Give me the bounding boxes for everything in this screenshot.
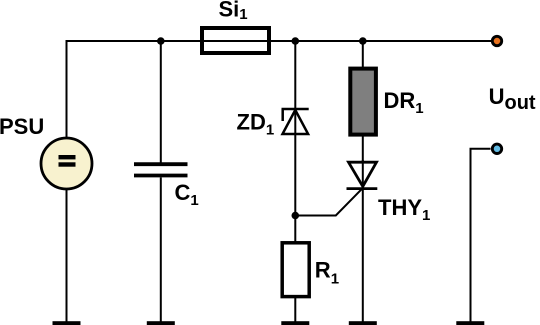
ground symbol under R1 [281,321,309,325]
wire gate node down to R1 [294,215,296,244]
dropper resistor DR1 [350,69,376,135]
wire top rail to DR1 [362,41,364,68]
resistor R1 [282,243,309,297]
gate wire from node to thyristor gate [295,189,362,216]
wire top rail right segment (fuse to output terminal) [271,40,491,42]
wire top rail to capacitor [160,41,162,163]
fuse Si1 [200,28,271,53]
zener diode ZD1 [282,109,309,134]
junction node on top rail above C1 [157,37,165,45]
wire vertical from top rail down to PSU [66,40,68,138]
wire top rail left segment (PSU corner to fuse) [66,40,204,42]
wire DR1 to thyristor [362,135,364,163]
wire R1 bottom to ground [294,296,296,323]
wire capacitor bottom to ground [160,178,162,323]
output terminal positive (orange) [492,36,501,45]
junction node on top rail above ZD1 [292,37,300,45]
PSU source circle [41,138,92,189]
thyristor THY1 [347,162,378,188]
wire PSU bottom to ground [66,189,68,323]
capacitor C1 [134,164,188,175]
wire top rail down through zener branch to gate node [294,41,296,217]
svg-text:PSU: PSU [0,114,44,139]
junction node at zener/R1/gate [292,212,300,220]
ground symbol under C1 [147,321,175,325]
output terminal negative (blue) [492,144,501,153]
wire from blue terminal left and down to ground [471,149,491,323]
ground symbol under output [456,321,484,325]
ground symbol under THY1 [349,321,377,325]
junction node on top rail above DR1 [359,37,367,45]
wire thyristor cathode to ground [362,160,364,323]
ground symbol under PSU [53,321,81,325]
